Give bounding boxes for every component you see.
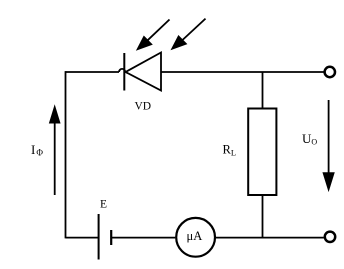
photodiode VD triangle [126,53,162,91]
svg-text:E: E [100,199,107,211]
wire: resistor branch bottom vertical [262,195,264,238]
light arrow 1 [137,20,170,50]
svg-text:RL: RL [223,143,237,158]
wire: bottom-left horizontal to battery [66,237,99,239]
microammeter uA circle [176,218,215,257]
light arrow 2 [172,19,206,50]
voltage arrow U_O [323,100,334,191]
current arrow I_phi [50,106,60,195]
wire: microammeter to bottom terminal [216,237,324,239]
svg-text:IΦ: IΦ [31,142,43,158]
photodiode VD cathode bar [123,53,125,91]
wire: top-left horizontal from left corner to diode bar [66,71,120,73]
wire: battery to microammeter [111,237,175,239]
resistor R_L body [248,109,276,196]
svg-text:μA: μA [187,229,203,243]
wire: left vertical [65,71,67,238]
wire: top-right horizontal from diode to top terminal [161,71,324,73]
battery E short plate [110,230,112,245]
svg-text:UO: UO [302,131,317,146]
svg-text:VD: VD [135,101,152,113]
battery E long plate [98,214,100,260]
terminal: top output circle [325,67,335,77]
terminal: bottom output circle [325,232,335,242]
wire: resistor branch top vertical [262,72,264,109]
wire: small hop arc left of diode bar [119,69,125,72]
